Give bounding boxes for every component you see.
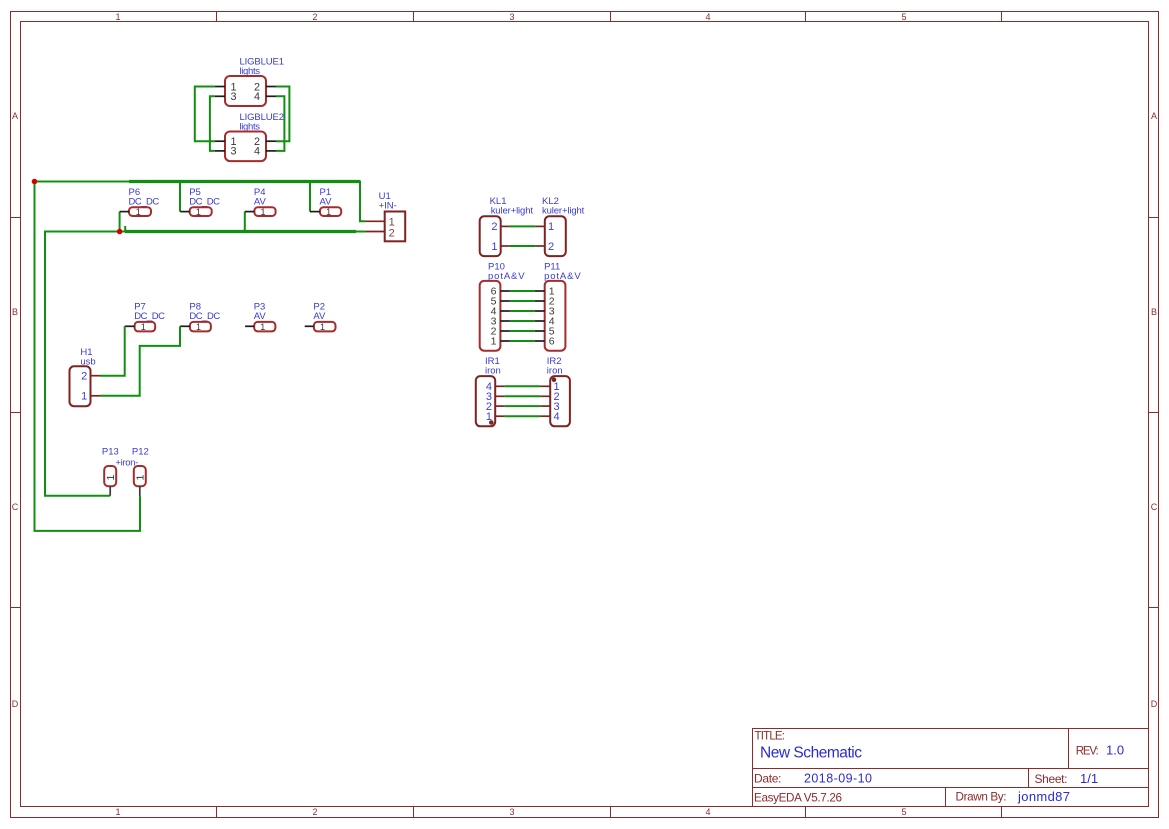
svg-text:2: 2 <box>548 241 554 253</box>
wire P8 to H1.1 <box>100 326 180 396</box>
svg-text:AV: AV <box>313 311 326 322</box>
svg-text:iron: iron <box>547 366 563 377</box>
svg-text:3: 3 <box>509 807 514 817</box>
wire bottom bus thick overlay <box>125 230 356 233</box>
wire left outer vertical to P12 <box>35 182 141 531</box>
svg-text:EasyEDA V5.7.26: EasyEDA V5.7.26 <box>754 792 842 805</box>
svg-text:1: 1 <box>260 322 265 332</box>
pin header P7 <box>125 301 165 332</box>
svg-text:4: 4 <box>705 807 710 817</box>
svg-text:+iron-: +iron- <box>115 457 138 468</box>
svg-text:B: B <box>1151 307 1157 317</box>
wire P4 drop <box>244 212 246 232</box>
wire lights pin4-pin4 right inner <box>276 96 284 151</box>
svg-text:1: 1 <box>491 336 497 348</box>
wire lights pin1-pin1 left outer <box>195 87 215 142</box>
svg-text:1/1: 1/1 <box>1080 771 1098 786</box>
pin header P13 <box>102 447 119 496</box>
wires IR1-IR2 4 nets <box>504 386 540 416</box>
pin header P5 <box>180 187 220 217</box>
svg-text:AV: AV <box>254 196 267 207</box>
svg-text:5: 5 <box>901 12 906 22</box>
connector IR1 <box>476 356 504 426</box>
connector LIGBLUE1 <box>215 57 284 107</box>
connector KL1 <box>480 196 534 256</box>
svg-text:Drawn By:: Drawn By: <box>956 790 1007 803</box>
wire top bus thick overlay <box>129 180 360 183</box>
svg-text:1: 1 <box>196 207 201 217</box>
svg-text:1: 1 <box>196 322 201 332</box>
wire bottom bus to U1 pin2 <box>45 232 365 496</box>
svg-text:Sheet:: Sheet: <box>1035 772 1068 786</box>
svg-text:1: 1 <box>134 475 146 481</box>
left ticks <box>11 218 21 608</box>
connector P10 <box>480 262 526 351</box>
svg-text:1: 1 <box>115 807 120 817</box>
svg-text:1.0: 1.0 <box>1106 743 1124 758</box>
top ticks <box>217 12 1002 22</box>
junction node top-left <box>32 179 38 185</box>
svg-text:C: C <box>12 502 19 512</box>
svg-text:1: 1 <box>105 475 117 481</box>
svg-text:1: 1 <box>141 322 146 332</box>
svg-text:B: B <box>12 307 18 317</box>
svg-text:kuler+light: kuler+light <box>542 206 585 217</box>
pin header P2 <box>305 301 336 332</box>
svg-text:2: 2 <box>81 371 87 383</box>
svg-text:TITLE:: TITLE: <box>755 731 786 743</box>
svg-text:1: 1 <box>136 207 141 217</box>
pin header P3 <box>245 301 275 332</box>
wires P10-P11 6 nets <box>510 291 535 341</box>
pin header P8 <box>180 301 220 332</box>
svg-text:1: 1 <box>320 322 325 332</box>
svg-text:AV: AV <box>320 196 333 207</box>
connector LIGBLUE2 <box>215 112 284 161</box>
wire stub notch near P6 <box>124 226 126 232</box>
svg-text:1: 1 <box>81 391 87 403</box>
svg-text:P12: P12 <box>132 447 149 458</box>
svg-text:C: C <box>1151 502 1158 512</box>
svg-text:Date:: Date: <box>754 772 782 786</box>
svg-text:DC_DC: DC_DC <box>129 196 160 207</box>
svg-text:2: 2 <box>312 12 317 22</box>
bottom ticks <box>217 807 1002 818</box>
svg-text:1: 1 <box>261 207 266 217</box>
wire lights pin2-pin2 right outer <box>276 87 289 142</box>
connector KL2 <box>535 196 584 256</box>
svg-text:5: 5 <box>901 807 906 817</box>
svg-text:A: A <box>1151 111 1157 121</box>
wire top bus to U1 pin1 <box>35 182 366 222</box>
wire P7 to H1.2 <box>100 326 125 375</box>
wire KL1.1-KL2.2 <box>509 245 535 247</box>
svg-text:4: 4 <box>554 411 560 423</box>
svg-text:4: 4 <box>705 12 710 22</box>
svg-text:DC_DC: DC_DC <box>134 311 165 322</box>
TITLE BLOCK <box>753 729 1149 807</box>
svg-text:D: D <box>12 699 19 709</box>
svg-text:New Schematic: New Schematic <box>760 745 862 762</box>
svg-text:DC_DC: DC_DC <box>189 196 220 207</box>
svg-text:3: 3 <box>509 12 514 22</box>
pin header P4 <box>245 187 276 217</box>
svg-text:2: 2 <box>312 807 317 817</box>
wire P1 rise <box>309 182 311 212</box>
svg-text:1: 1 <box>491 241 497 253</box>
svg-text:DC_DC: DC_DC <box>189 311 220 322</box>
svg-text:kuler+light: kuler+light <box>491 206 534 217</box>
svg-text:2: 2 <box>389 227 395 239</box>
svg-text:1: 1 <box>548 221 554 233</box>
connector P11 <box>535 262 581 351</box>
right ticks <box>1149 218 1159 608</box>
svg-text:6: 6 <box>549 336 555 348</box>
svg-text:3: 3 <box>231 146 237 158</box>
pin header P1 <box>310 187 341 217</box>
pin header P12 <box>132 447 149 497</box>
svg-text:3: 3 <box>231 91 237 103</box>
svg-text:1: 1 <box>115 12 120 22</box>
svg-text:1: 1 <box>326 207 331 217</box>
wire P5 rise <box>179 182 181 212</box>
svg-text:2: 2 <box>491 221 497 233</box>
svg-text:REV:: REV: <box>1076 745 1099 757</box>
svg-text:AV: AV <box>254 311 267 322</box>
wire KL1.2-KL2.1 <box>509 225 535 227</box>
svg-text:D: D <box>1151 699 1158 709</box>
svg-text:P13: P13 <box>102 447 119 458</box>
svg-text:jonmd87: jonmd87 <box>1017 789 1070 804</box>
svg-text:+IN-: +IN- <box>379 200 397 211</box>
wire P6 drop <box>119 212 121 232</box>
pin header P6 <box>120 187 160 217</box>
wire lights pin3-pin3 left inner <box>210 96 215 151</box>
junction node P6-bus <box>117 229 123 235</box>
svg-text:2018-09-10: 2018-09-10 <box>804 772 872 786</box>
svg-text:iron: iron <box>485 366 501 377</box>
IC U1 <box>365 191 405 242</box>
svg-text:A: A <box>12 111 18 121</box>
connector IR2 <box>540 356 570 426</box>
svg-text:4: 4 <box>254 146 260 158</box>
svg-text:4: 4 <box>254 91 260 103</box>
connector H1 <box>70 347 101 406</box>
